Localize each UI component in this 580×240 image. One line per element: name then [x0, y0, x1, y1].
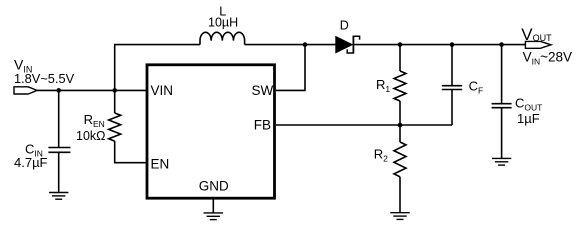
junction FB/R1/R2	[398, 123, 403, 128]
junction CF top	[450, 42, 455, 47]
ground R2	[390, 213, 409, 220]
svg-text:D: D	[340, 18, 349, 32]
wire input junction up to L rail	[115, 45, 200, 91]
wire CIN to ground	[58, 152, 60, 192]
capacitor CF	[442, 45, 462, 125]
wire SW pin to rail	[276, 45, 305, 91]
wire L to diode	[245, 44, 336, 46]
junction R1 top	[398, 42, 403, 47]
svg-text:1.8V~5.5V: 1.8V~5.5V	[14, 71, 75, 86]
wire EN	[115, 141, 147, 163]
wire FB	[276, 124, 452, 126]
capacitor CIN	[48, 148, 70, 153]
wire diode to output	[354, 44, 525, 46]
resistor R2	[394, 125, 406, 212]
wire CIN branch	[58, 90, 60, 147]
svg-text:SW: SW	[252, 83, 274, 98]
svg-text:1µF: 1µF	[517, 111, 540, 126]
ground GND pin	[204, 213, 223, 220]
resistor R1	[394, 45, 406, 125]
capacitor COUT	[492, 45, 512, 158]
inductor L	[200, 32, 245, 44]
svg-text:VIN~28V: VIN~28V	[523, 50, 572, 67]
wire GND pin	[212, 199, 214, 213]
wire input to VIN pin	[37, 89, 147, 91]
svg-text:FB: FB	[254, 118, 271, 133]
junction SW/rail	[303, 42, 308, 47]
ground COUT	[492, 158, 511, 165]
ground CIN	[49, 193, 68, 200]
svg-text:4.7µF: 4.7µF	[14, 155, 48, 170]
svg-text:GND: GND	[199, 179, 229, 194]
svg-text:10µH: 10µH	[208, 16, 238, 30]
junction COUT top	[499, 42, 504, 47]
svg-text:EN: EN	[151, 156, 170, 171]
svg-text:10kΩ: 10kΩ	[76, 129, 106, 143]
diode D (schottky)	[336, 36, 360, 54]
junction input/CIN	[56, 88, 61, 93]
svg-text:VIN: VIN	[151, 83, 174, 98]
junction input/L	[112, 88, 117, 93]
input port VIN tag	[14, 87, 37, 94]
IC U1 boost converter	[147, 65, 275, 198]
resistor REN	[109, 90, 121, 141]
output port VOUT tag	[525, 41, 551, 48]
